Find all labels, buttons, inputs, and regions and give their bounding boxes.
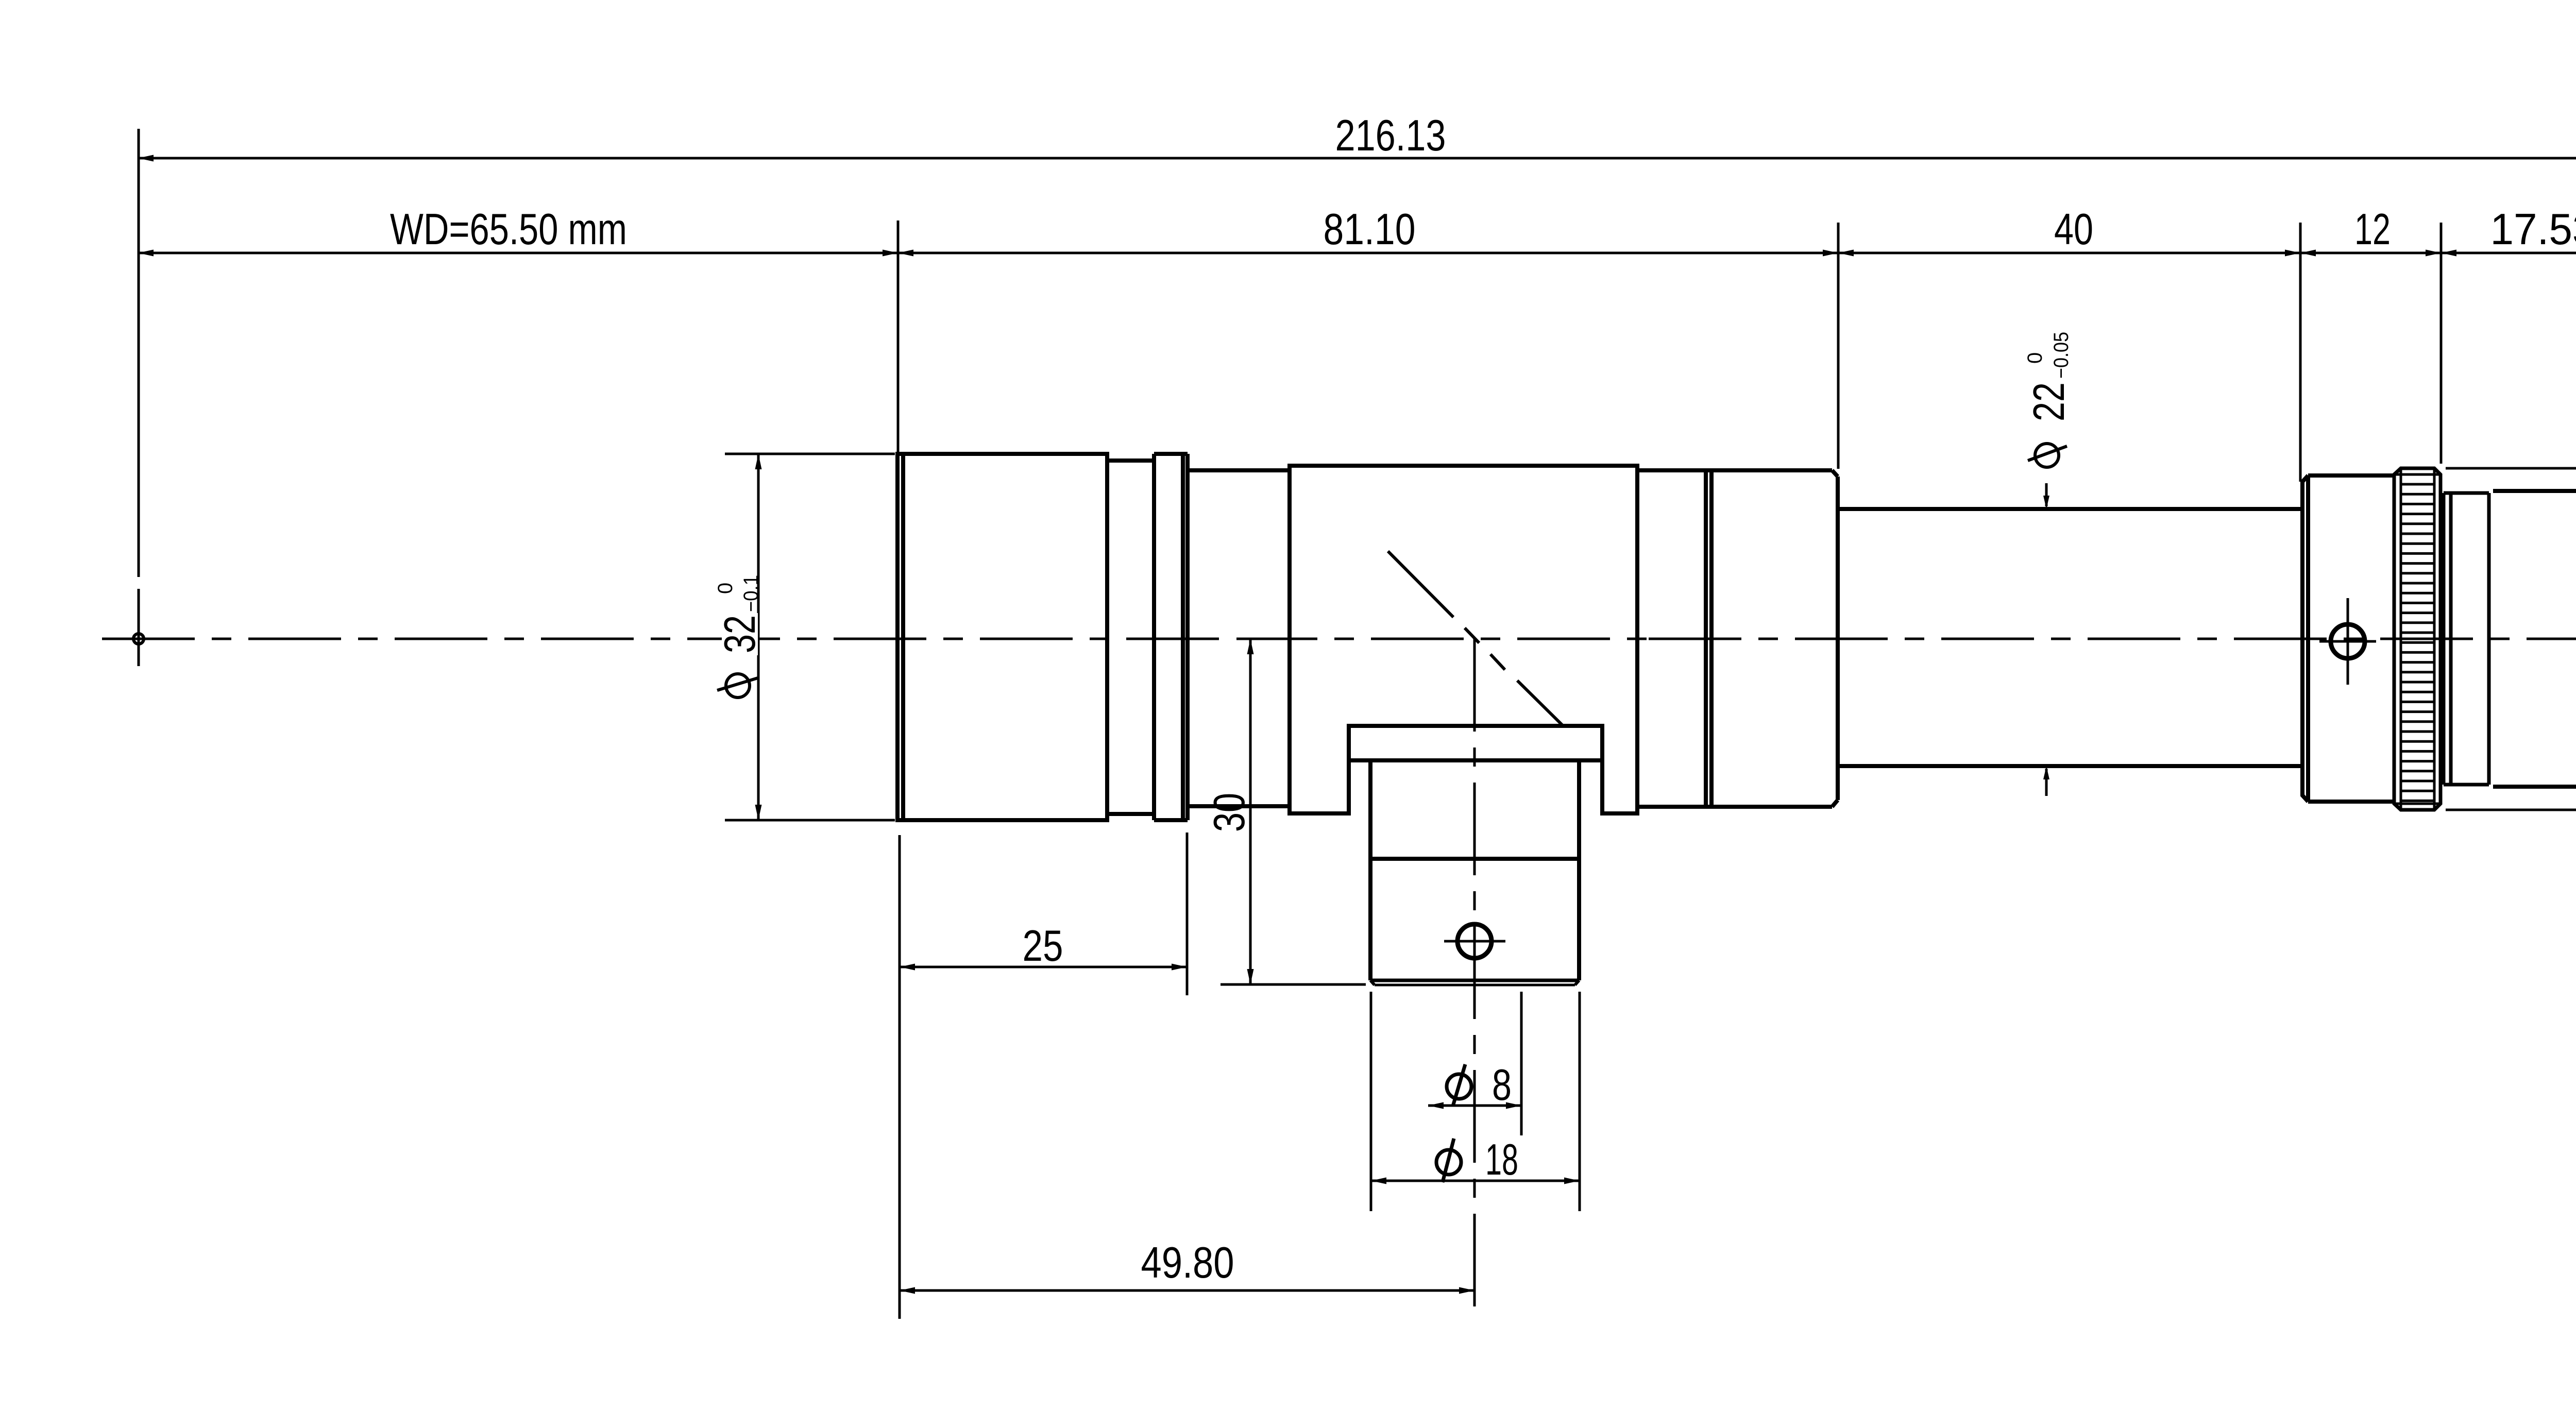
front face inner line <box>901 454 905 820</box>
svg-text:0: 0 <box>714 583 737 594</box>
svg-text:22: 22 <box>2025 382 2074 421</box>
svg-text:17.53: 17.53 <box>2490 205 2576 254</box>
adapter thumbscrew crosshair <box>2319 640 2376 643</box>
svg-text:WD=65.50 mm: WD=65.50 mm <box>390 205 627 254</box>
dimension row arrows <box>138 250 154 257</box>
dimension phi18 line <box>1371 1180 1580 1182</box>
rear spacer ring <box>2444 491 2489 495</box>
phi18 extension lines <box>1370 992 1372 1211</box>
object plane marker circle <box>133 634 144 644</box>
svg-text:81.10: 81.10 <box>1324 205 1416 254</box>
adapter body outline <box>2302 475 2394 802</box>
main optical axis centerline <box>102 638 1236 640</box>
adapter thumbscrew <box>2331 624 2365 658</box>
object plane vertical extension line <box>138 129 140 577</box>
svg-text:0: 0 <box>2024 352 2046 364</box>
svg-text:30: 30 <box>1205 793 1254 832</box>
port vertical centerline <box>1473 639 1476 1306</box>
phi18 label <box>1436 1150 1461 1175</box>
c-mount thread outline <box>2493 489 2576 493</box>
port bottom extension line <box>1221 983 1366 986</box>
extension line tube end <box>2299 223 2302 482</box>
objective barrel front cap <box>897 454 1107 820</box>
port screw hole <box>1458 924 1492 958</box>
tube phi22 outline <box>1838 507 2302 511</box>
port screw hole crosshair <box>1444 940 1505 943</box>
main body outline <box>1290 466 1637 813</box>
svg-text:25: 25 <box>1023 922 1063 971</box>
extension line front face <box>897 220 900 454</box>
svg-text:−0.05: −0.05 <box>2050 332 2073 379</box>
port wall left <box>1368 760 1372 980</box>
extension line barrel front lower <box>899 835 901 1319</box>
svg-text:49.80: 49.80 <box>1141 1238 1234 1287</box>
phi32 dimension line <box>757 454 760 820</box>
dimension 30 line <box>1249 639 1252 984</box>
dimension 49.80 line <box>900 1289 1475 1292</box>
dimension 216.13 line <box>138 157 2576 160</box>
barrel neck <box>1188 468 1290 472</box>
dimension 25 line <box>900 966 1187 969</box>
relay ring outlines <box>1637 468 1832 472</box>
extension line tube start <box>1837 223 1840 469</box>
svg-text:−0.1: −0.1 <box>740 575 762 612</box>
svg-text:18: 18 <box>1485 1135 1518 1184</box>
extension line ring right lower <box>1186 833 1189 995</box>
svg-text:8: 8 <box>1492 1061 1512 1110</box>
svg-text:216.13: 216.13 <box>1335 111 1446 160</box>
phi8 extension line <box>1520 992 1523 1135</box>
phi22 label <box>2024 332 2074 467</box>
port flange bottom line <box>1349 758 1602 762</box>
port bottom edge <box>1370 979 1579 982</box>
barrel mid ring <box>1107 458 1154 463</box>
knurled focus ring <box>2394 468 2441 810</box>
dimension phi8 line <box>1428 1105 1521 1107</box>
phi32 extension lines <box>725 453 895 455</box>
svg-text:32: 32 <box>716 615 765 653</box>
port joint line <box>1370 857 1579 861</box>
port wall right <box>1577 760 1581 980</box>
phi8 label <box>1447 1074 1471 1099</box>
mirror diagonal <box>1388 551 1453 617</box>
svg-text:12: 12 <box>2354 205 2391 254</box>
extension line knurl right <box>2440 223 2443 464</box>
svg-text:40: 40 <box>2054 205 2093 254</box>
phi29.5 extension lines <box>2446 467 2576 470</box>
phi22 arrows <box>2045 483 2048 506</box>
phi32 label <box>714 575 765 698</box>
barrel ring 2 <box>1154 452 1188 456</box>
dimension row line <box>138 252 2576 254</box>
